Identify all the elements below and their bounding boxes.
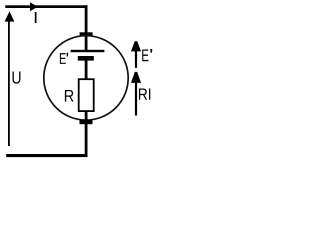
wire top horizontal <box>5 5 87 8</box>
current arrow I <box>30 2 38 11</box>
wire right vertical top lead <box>85 5 88 50</box>
wire battery to resistor <box>85 61 88 80</box>
wire bottom lead <box>85 112 88 157</box>
resistor R <box>79 79 94 111</box>
label R <box>65 90 74 102</box>
label E' right (emf) <box>142 50 148 62</box>
voltage source outline <box>44 36 128 120</box>
label RI <box>139 89 150 100</box>
label U <box>13 71 21 83</box>
battery E' long plate <box>71 50 105 52</box>
battery E' short plate <box>78 56 94 61</box>
voltage arrow U <box>5 11 15 146</box>
wire bottom horizontal <box>6 154 87 157</box>
terminal top <box>80 32 93 36</box>
voltage arrow RI (right) <box>131 72 141 116</box>
label E' right apostrophe <box>150 49 152 53</box>
voltage arrow E' (right) <box>131 41 141 68</box>
label E' inside apostrophe <box>67 53 69 57</box>
label I <box>35 12 37 23</box>
label E' inside (emf value) <box>60 53 66 64</box>
terminal bottom <box>80 120 93 124</box>
